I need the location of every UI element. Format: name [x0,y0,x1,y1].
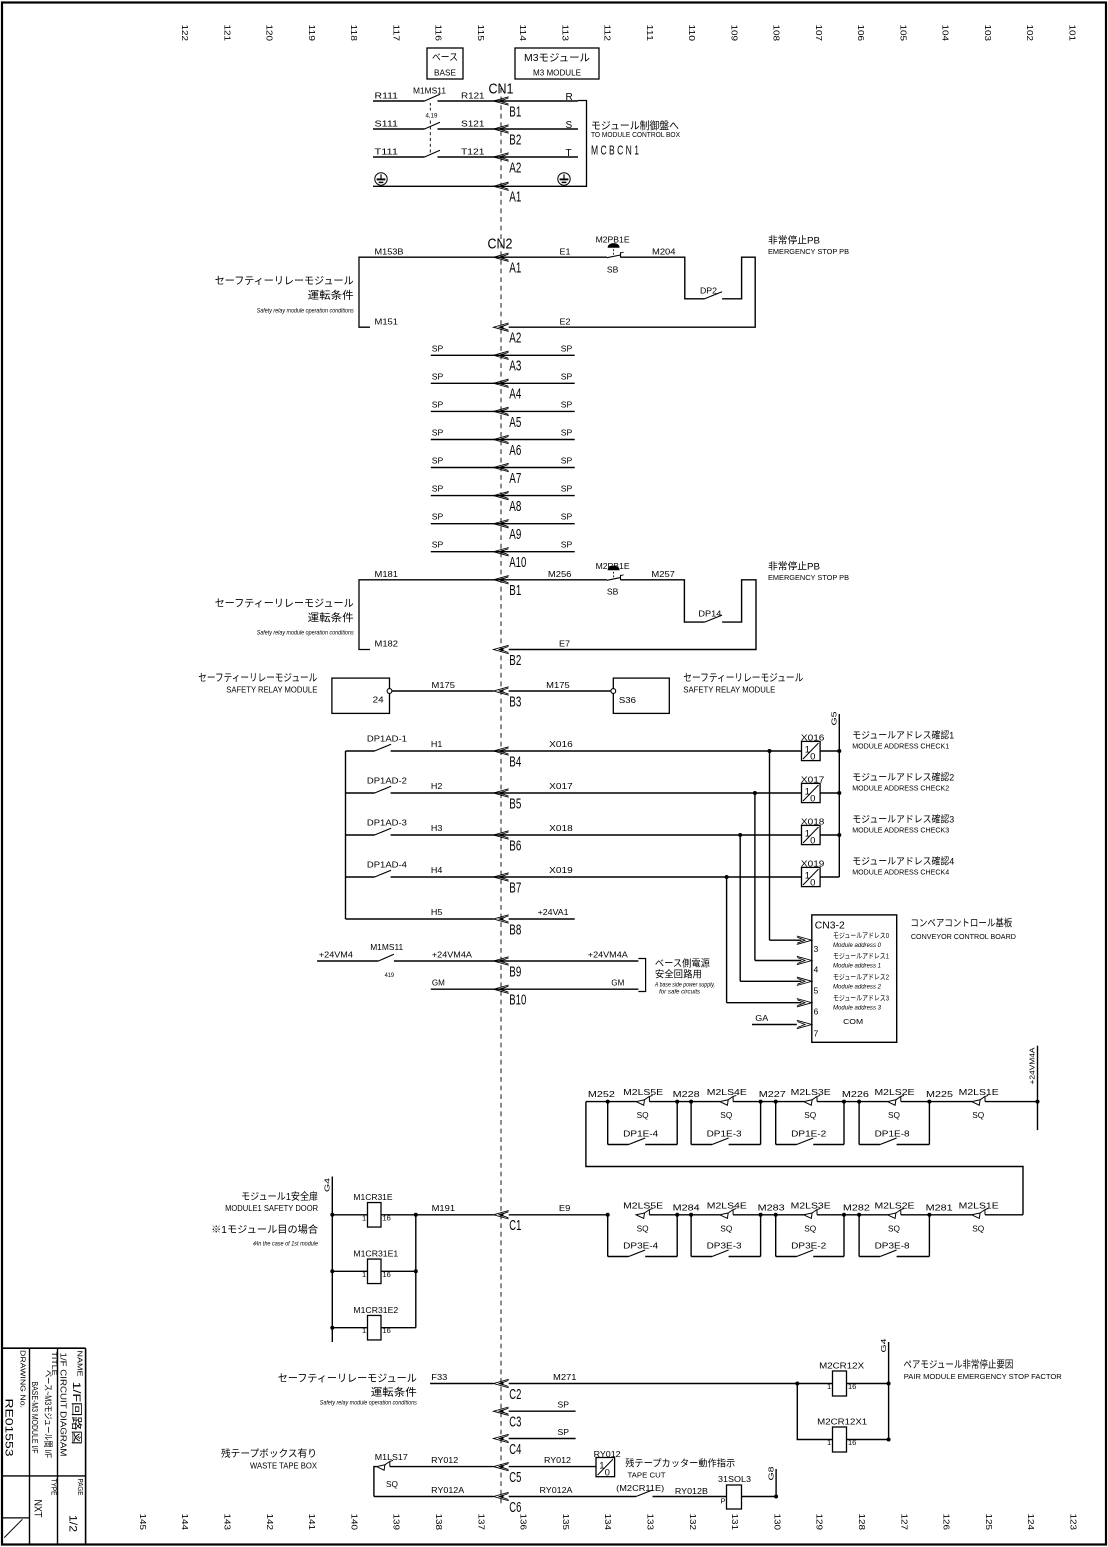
svg-text:24: 24 [373,695,384,705]
svg-text:112: 112 [603,25,612,42]
relay coil M1CR31E [330,1213,334,1217]
svg-text:モジュールアドレス確認3: モジュールアドレス確認3 [852,814,954,826]
wire S111-S121 phase S [373,128,425,130]
svg-text:M204: M204 [652,247,676,257]
svg-text:TAPE CUT: TAPE CUT [628,1471,666,1480]
svg-text:DP1E-4: DP1E-4 [623,1128,658,1138]
connector arrow CN2 A4 [494,379,509,387]
svg-text:+24VM4A: +24VM4A [432,950,472,960]
limit switch M2LS1E (upper) [972,1100,980,1105]
bus M2CR12X right vertical to GM flag [888,1342,890,1440]
svg-text:+24VA1: +24VA1 [538,907,569,917]
svg-text:4: 4 [814,965,819,975]
svg-text:116: 116 [434,25,443,42]
svg-text:Module address 0: Module address 0 [833,942,882,949]
svg-text:NXT: NXT [31,1500,43,1518]
svg-text:A2: A2 [509,160,521,176]
svg-text:E1: E1 [560,247,571,257]
svg-text:SB: SB [607,587,619,597]
svg-text:X016: X016 [549,739,573,749]
svg-text:SQ: SQ [888,1110,900,1120]
svg-text:143: 143 [223,1514,232,1531]
svg-text:(M2CR11E): (M2CR11E) [616,1484,664,1493]
relay coil M2CR12X [795,1382,799,1386]
svg-text:SQ: SQ [637,1223,649,1233]
svg-text:M153B: M153B [375,247,404,257]
svg-text:P: P [721,1497,726,1506]
svg-text:136: 136 [519,1514,528,1531]
wire SP row A7 [431,467,575,469]
svg-text:5: 5 [814,985,819,995]
svg-text:E7: E7 [559,639,570,649]
svg-text:125: 125 [984,1514,993,1531]
svg-text:EMERGENCY STOP PB: EMERGENCY STOP PB [768,573,849,582]
svg-text:モジュール1安全扉: モジュール1安全扉 [241,1190,318,1203]
svg-text:1/F CIRCUIT DIAGRAM: 1/F CIRCUIT DIAGRAM [59,1353,69,1457]
connector arrow CN2 B9 [494,957,509,965]
wire ground row CN1 [373,185,578,187]
svg-text:3: 3 [814,944,819,954]
svg-text:111: 111 [645,25,654,42]
wire H1 / X016 [391,750,802,752]
svg-text:145: 145 [138,1514,147,1531]
wire M191 row C1 [416,1214,494,1216]
wire GM row B10 [431,988,639,990]
svg-text:DP3E-3: DP3E-3 [707,1240,742,1250]
bus indicator outputs to G5 [838,714,840,877]
svg-text:M282: M282 [843,1202,870,1212]
svg-text:PAGE: PAGE [76,1479,85,1496]
svg-text:C2: C2 [509,1387,521,1403]
svg-text:SQ: SQ [386,1479,398,1489]
connector arrow CN2 A3 [494,351,509,359]
limit switch M2LS4E (lower) [720,1213,728,1218]
switch DP1E-2 parallel branch [774,1100,778,1104]
title block [2,1347,86,1349]
svg-text:M2PB1E: M2PB1E [596,235,630,245]
bus DP1AD left vertical [345,751,347,919]
switch DP1E-3 parallel branch [689,1100,693,1104]
svg-text:M227: M227 [759,1089,786,1099]
svg-text:SAFETY RELAY MODULE: SAFETY RELAY MODULE [683,686,776,695]
svg-text:M1MS11: M1MS11 [413,86,446,96]
svg-text:非常停止PB: 非常停止PB [768,235,820,247]
svg-text:ペアモジュール非常停止要因: ペアモジュール非常停止要因 [903,1358,1013,1371]
svg-text:DP1E-8: DP1E-8 [875,1128,910,1138]
box BASE [427,48,463,79]
pushbutton M2PB1E (SB) emergency stop [607,255,621,258]
bus relay left vertical [331,1177,333,1343]
svg-text:SP: SP [561,428,573,438]
svg-text:131: 131 [730,1514,739,1531]
svg-text:残テープボックス有り: 残テープボックス有り [221,1447,317,1460]
box safety relay module 24 [332,678,390,713]
connector arrow C4 [494,1434,509,1442]
svg-text:Module address 3: Module address 3 [833,1005,882,1012]
net +24VM4A supply stub [1037,1046,1039,1130]
limit switch M2LS3E (lower) [804,1213,812,1218]
svg-text:106: 106 [856,25,865,42]
wire SP row A6 [431,439,575,441]
svg-text:M2LS2E: M2LS2E [875,1087,915,1097]
svg-text:1: 1 [827,1382,831,1391]
svg-text:M271: M271 [553,1372,577,1382]
svg-text:C1: C1 [509,1218,521,1234]
svg-text:モジュールアドレス確認1: モジュールアドレス確認1 [852,730,954,742]
wire indicator X017 output [820,792,839,794]
connector arrow C5 [494,1462,509,1470]
connector arrow C6 [494,1492,509,1500]
svg-text:S121: S121 [461,119,485,129]
svg-text:137: 137 [476,1514,485,1531]
svg-text:Safety relay module operation: Safety relay module operation conditions [257,308,354,315]
svg-text:A6: A6 [509,443,521,459]
svg-text:DP1E-3: DP1E-3 [707,1128,742,1138]
svg-text:GM: GM [611,978,624,988]
wire F33 / M271 row C2 [430,1383,493,1385]
svg-text:132: 132 [688,1514,697,1531]
wire upper LS chain main [586,1101,636,1103]
switch DP2 [705,292,723,299]
svg-text:DP1AD-2: DP1AD-2 [367,775,407,785]
svg-text:104: 104 [941,25,950,42]
svg-text:EMERGENCY STOP PB: EMERGENCY STOP PB [768,247,849,256]
wire RY012B [653,1496,727,1498]
svg-text:Safety relay module operation: Safety relay module operation conditions [320,1400,417,1407]
limit switch M2LS1E (lower) [972,1213,980,1218]
svg-text:144: 144 [180,1514,189,1531]
svg-text:M1CR31E1: M1CR31E1 [353,1249,398,1259]
bus relay right vertical [415,1215,417,1328]
svg-text:G5: G5 [830,712,839,726]
svg-text:M257: M257 [651,569,675,579]
svg-text:A base side power supply,: A base side power supply, [654,982,715,989]
svg-text:SP: SP [561,484,573,494]
svg-text:+24VM4A: +24VM4A [588,950,628,960]
svg-text:M1CR31E: M1CR31E [353,1192,392,1202]
svg-text:C4: C4 [509,1442,521,1458]
svg-text:G4: G4 [323,1178,332,1192]
switch DP3E-4 parallel branch [606,1213,610,1217]
limit switch M2LS3E (upper) [804,1100,812,1105]
svg-text:TO MODULE CONTROL BOX: TO MODULE CONTROL BOX [591,130,680,139]
svg-text:DP1AD-3: DP1AD-3 [367,817,407,827]
svg-text:MODULE ADDRESS CHECK1: MODULE ADDRESS CHECK1 [852,742,949,751]
svg-text:コンベアコントロール基板: コンベアコントロール基板 [910,917,1012,930]
svg-text:B8: B8 [509,922,521,938]
connector arrow CN2 A5 [494,407,509,415]
svg-text:M225: M225 [926,1089,953,1099]
svg-text:135: 135 [561,1514,570,1531]
svg-text:NAME: NAME [76,1351,85,1377]
svg-text:127: 127 [899,1514,908,1531]
svg-text:107: 107 [814,25,823,42]
svg-text:M181: M181 [375,569,399,579]
svg-text:セーフティーリレーモジュール: セーフティーリレーモジュール [278,1373,417,1385]
svg-text:123: 123 [1069,1514,1078,1531]
svg-text:残テープカッター動作指示: 残テープカッター動作指示 [625,1458,735,1470]
ground symbol left [375,173,387,185]
relay coil M1CR31E2 [330,1326,334,1330]
svg-text:129: 129 [815,1514,824,1531]
mechanical link dashed [429,103,431,111]
svg-text:0: 0 [605,1467,610,1478]
svg-text:B3: B3 [509,694,521,710]
svg-text:R121: R121 [461,91,485,101]
wire M153B / E1 [370,256,607,258]
svg-text:115: 115 [476,25,485,42]
connector arrow CN1 A2 [494,153,509,161]
connector arrow CN2 B1 [494,576,509,584]
svg-text:1: 1 [362,1326,366,1335]
svg-text:SQ: SQ [720,1223,732,1233]
pin CN3-2 pin 6 [797,999,812,1007]
connector arrow CN1 B1 [494,97,509,105]
connector arrow CN1 B2 [494,125,509,133]
svg-text:SQ: SQ [804,1110,816,1120]
svg-text:139: 139 [392,1514,401,1531]
svg-text:E2: E2 [560,317,571,327]
svg-text:133: 133 [646,1514,655,1531]
wire H5 row B8 [346,918,494,920]
svg-text:Safety relay module operation: Safety relay module operation conditions [257,630,354,637]
svg-text:T: T [566,148,572,159]
switch DP3E-2 parallel branch [774,1213,778,1217]
svg-text:C5: C5 [509,1470,521,1486]
svg-text:A4: A4 [509,387,521,403]
svg-text:M252: M252 [588,1089,615,1099]
connector arrow C1 [494,1211,509,1219]
svg-text:110: 110 [687,25,696,42]
svg-text:A7: A7 [509,471,521,487]
connector arrow CN2 A1 [494,253,509,261]
svg-text:0: 0 [810,877,815,888]
box connector CN3-2 [812,915,897,1042]
wire M175 left [392,690,494,692]
svg-text:DP1AD-4: DP1AD-4 [367,859,407,869]
svg-text:M2LS3E: M2LS3E [791,1087,831,1097]
svg-text:6: 6 [814,1007,819,1017]
connector arrow CN2 B5 [494,789,509,797]
svg-text:セーフティーリレーモジュール: セーフティーリレーモジュール [215,598,354,610]
svg-text:RY012A: RY012A [540,1485,573,1495]
svg-text:SP: SP [561,456,573,466]
wire +24VM4 / +24VM4A row B9 [317,960,378,962]
svg-text:M175: M175 [432,680,456,690]
svg-text:モジュールアドレス1: モジュールアドレス1 [833,952,889,961]
wire R111-R121 phase R [373,100,425,102]
svg-text:モジュールアドレス3: モジュールアドレス3 [833,994,889,1003]
wire H2 / X017 [391,792,802,794]
svg-text:M191: M191 [432,1203,456,1213]
svg-text:A9: A9 [509,527,521,543]
svg-text:S: S [566,120,573,131]
svg-text:M C B C N 1: M C B C N 1 [591,144,639,158]
svg-text:CN1: CN1 [489,81,514,98]
svg-text:M256: M256 [548,569,572,579]
svg-text:BASE: BASE [434,68,456,78]
connector arrow CN2 A10 [494,548,509,556]
relay coil M2CR12X1 parallel [797,1384,832,1440]
svg-text:142: 142 [265,1514,274,1531]
svg-text:M3 MODULE: M3 MODULE [533,68,581,78]
svg-text:SQ: SQ [637,1110,649,1120]
svg-text:M2LS4E: M2LS4E [707,1087,747,1097]
svg-text:A1: A1 [509,190,521,206]
switch DP3E-3 parallel branch [689,1213,693,1217]
svg-text:非常停止PB: 非常停止PB [768,561,820,573]
svg-text:RY012: RY012 [431,1455,458,1465]
svg-text:B1: B1 [509,104,521,120]
svg-text:SP: SP [432,371,444,381]
svg-text:C3: C3 [509,1415,521,1431]
svg-text:M284: M284 [673,1202,700,1212]
connector arrow CN2 B2 [494,645,509,653]
wire E9 row C1 right [509,1214,607,1216]
svg-text:M2LS4E: M2LS4E [707,1200,747,1210]
svg-text:M2LS2E: M2LS2E [875,1200,915,1210]
svg-text:S36: S36 [619,695,636,705]
svg-text:運転条件: 運転条件 [308,289,354,302]
wire SP row A9 [431,523,575,525]
wire SP row A8 [431,495,575,497]
wire M181 / M256 [370,579,607,581]
svg-text:121: 121 [222,25,231,42]
svg-text:H5: H5 [431,907,443,917]
wire SP row C3 [509,1410,576,1412]
wire SP row A5 [431,410,575,412]
svg-text:Module address 1: Module address 1 [833,963,881,970]
svg-text:DP3E-4: DP3E-4 [623,1240,658,1250]
wire H1 drop to CN3-2 pin 3 [768,749,772,753]
svg-text:A10: A10 [509,555,526,571]
wire upper chain left drop / long return [586,1102,1023,1215]
svg-text:140: 140 [349,1514,358,1531]
svg-text:M2LS1E: M2LS1E [959,1200,999,1210]
svg-text:M2LS5E: M2LS5E [623,1087,663,1097]
svg-text:TYPE: TYPE [49,1479,58,1496]
svg-text:0: 0 [810,835,815,846]
svg-text:B9: B9 [509,964,521,980]
svg-text:運転条件: 運転条件 [371,1386,417,1399]
svg-text:SP: SP [558,1427,570,1437]
svg-text:BASE-M3 MODULE I/F: BASE-M3 MODULE I/F [30,1382,40,1454]
svg-text:SP: SP [561,540,573,550]
svg-text:1: 1 [827,1438,831,1447]
svg-text:114: 114 [518,25,527,42]
svg-text:S111: S111 [375,119,399,129]
svg-text:119: 119 [307,25,316,42]
svg-text:RE01553: RE01553 [3,1399,15,1457]
switch DP1AD-2 [346,792,375,794]
wire SP row A10 [431,551,575,553]
switch M1MS11 pole S [425,122,441,129]
svg-text:M2LS3E: M2LS3E [791,1200,831,1210]
svg-text:4,19: 4,19 [426,113,438,120]
svg-text:128: 128 [857,1514,866,1531]
svg-text:109: 109 [729,25,738,42]
svg-text:SQ: SQ [888,1223,900,1233]
svg-text:1: 1 [362,1213,366,1222]
wire indicator X018 output [820,834,839,836]
connector arrow CN2 A7 [494,463,509,471]
wire SP row C4 [509,1438,576,1440]
wire lower LS chain main [649,1214,719,1216]
connector arrow CN2 A2 [494,323,509,331]
connector arrow CN2 B8 [494,915,509,923]
box safety relay module S36 [613,678,669,713]
connector arrow C2 [494,1379,509,1387]
svg-text:H3: H3 [431,823,443,833]
svg-text:RY012: RY012 [544,1455,571,1465]
svg-text:セーフティーリレーモジュール: セーフティーリレーモジュール [215,275,354,287]
svg-text:130: 130 [772,1514,781,1531]
svg-text:M1MS11: M1MS11 [370,942,403,952]
wire solenoid to GB flag [742,1496,777,1498]
svg-text:SP: SP [432,343,444,353]
svg-text:DP1AD-1: DP1AD-1 [367,733,407,743]
connector arrow C3 [494,1407,509,1415]
pin CN3-2 pin 5 [797,977,812,985]
svg-text:SP: SP [432,484,444,494]
svg-text:B10: B10 [509,993,526,1009]
svg-text:7: 7 [814,1029,819,1039]
connector arrow CN1 A1 [494,182,509,190]
svg-text:MODULE ADDRESS CHECK2: MODULE ADDRESS CHECK2 [852,784,949,793]
svg-text:101: 101 [1068,25,1077,42]
svg-text:Module address 2: Module address 2 [833,983,882,990]
svg-text:118: 118 [349,25,358,42]
svg-text:X018: X018 [549,823,573,833]
svg-text:0: 0 [810,793,815,804]
connector arrow CN2 B7 [494,873,509,881]
switch DP1AD-3 [346,834,375,836]
bracket safety relay module left (B1) [359,580,370,650]
svg-text:ベース: ベース [432,53,458,64]
svg-text:T121: T121 [461,147,485,157]
connector arrow CN2 B6 [494,831,509,839]
svg-text:WASTE TAPE BOX: WASTE TAPE BOX [250,1462,318,1471]
svg-text:DP3E-2: DP3E-2 [791,1240,826,1250]
svg-text:H4: H4 [431,865,443,875]
wire indicator X016 output [820,750,839,752]
switch DP1E-4 parallel branch [606,1100,610,1104]
svg-text:MODULE1 SAFETY DOOR: MODULE1 SAFETY DOOR [225,1204,318,1213]
svg-text:102: 102 [1025,25,1034,42]
pin CN3-2 pin 3 [797,936,812,944]
svg-text:SP: SP [432,540,444,550]
svg-text:M2PB1E: M2PB1E [596,561,630,571]
svg-text:M151: M151 [375,317,399,327]
svg-text:B5: B5 [509,796,521,812]
svg-text:X017: X017 [549,781,573,791]
svg-text:SP: SP [432,428,444,438]
svg-text:SAFETY RELAY MODULE: SAFETY RELAY MODULE [226,686,317,695]
svg-text:103: 103 [983,25,992,42]
svg-text:G8: G8 [766,1467,775,1481]
svg-text:SQ: SQ [972,1110,984,1120]
bracket safety relay module left (CN2) [359,257,370,327]
svg-text:運転条件: 運転条件 [308,611,354,624]
bracket MCBCN1 [578,101,587,187]
svg-text:R111: R111 [375,91,399,101]
connector arrow CN2 A9 [494,520,509,528]
switch M1MS11 pole T [425,150,441,157]
switch DP1AD-4 [346,876,375,878]
pin CN3-2 pin 7 COM [797,1020,812,1028]
svg-text:SP: SP [561,371,573,381]
ground symbol right [558,173,570,185]
